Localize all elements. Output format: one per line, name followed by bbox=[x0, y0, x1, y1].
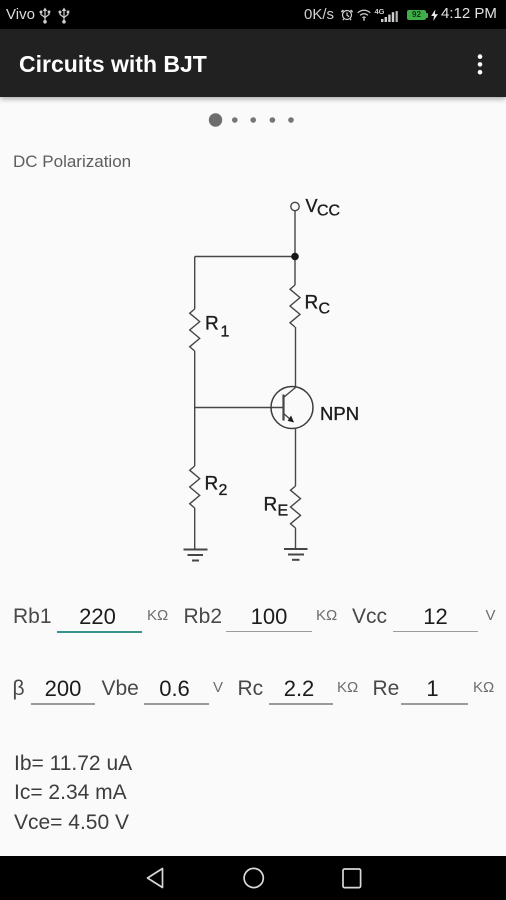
wire top horizontal bbox=[195, 256, 295, 258]
nav back button bbox=[144, 866, 166, 890]
transistor Q1 circle bbox=[271, 387, 313, 429]
status: 4G label bbox=[375, 7, 385, 16]
status: charging bolt bbox=[430, 9, 440, 22]
wire left rail middle bbox=[194, 351, 196, 466]
status: carrier text Vivo bbox=[6, 6, 35, 23]
field Rb1 bbox=[13, 605, 52, 629]
svg-text:2: 2 bbox=[219, 482, 228, 499]
status: network speed bbox=[304, 6, 334, 23]
dot 5 bbox=[288, 117, 294, 123]
junction node dot bbox=[291, 253, 299, 261]
status: battery with 92 bbox=[407, 10, 426, 20]
resistor R2 bbox=[190, 466, 200, 508]
transistor emitter diagonal bbox=[284, 414, 294, 423]
status: time bbox=[441, 5, 497, 22]
svg-text:V: V bbox=[306, 196, 318, 216]
section label bbox=[13, 152, 131, 172]
status: usb icon 1 bbox=[38, 7, 52, 24]
wire emitter down bbox=[295, 429, 297, 487]
transistor base bar bbox=[282, 395, 284, 421]
svg-text:R: R bbox=[264, 495, 278, 516]
ground right bbox=[284, 548, 308, 550]
active dot bbox=[209, 113, 222, 126]
transistor collector diagonal bbox=[284, 388, 296, 398]
dot 3 bbox=[250, 117, 256, 123]
ground left bbox=[184, 549, 208, 551]
wire left rail upper bbox=[194, 257, 196, 310]
Vcc terminal circle bbox=[291, 202, 299, 210]
wire base bbox=[195, 407, 284, 409]
app bar title bbox=[19, 51, 207, 78]
wire right rail upper bbox=[294, 257, 296, 286]
status bar bbox=[0, 0, 506, 29]
dot 4 bbox=[270, 117, 276, 123]
field Rc bbox=[238, 677, 264, 701]
svg-text:C: C bbox=[319, 301, 331, 318]
field beta bbox=[13, 677, 25, 701]
resistor RE bbox=[291, 486, 301, 528]
field Rb2 bbox=[184, 605, 223, 629]
app bar overflow menu bbox=[474, 52, 486, 76]
transistor emitter arrow bbox=[288, 416, 294, 423]
wire R2 to ground bbox=[194, 508, 196, 550]
app bar bbox=[0, 29, 506, 97]
svg-text:CC: CC bbox=[317, 203, 340, 220]
page indicator dots bbox=[200, 108, 310, 132]
dot 2 bbox=[232, 117, 238, 123]
status: signal bars bbox=[381, 11, 398, 22]
wire RC to transistor bbox=[295, 327, 297, 388]
svg-text:R: R bbox=[205, 474, 219, 495]
circuit schematic bbox=[0, 0, 506, 580]
results bbox=[14, 752, 132, 776]
svg-text:1: 1 bbox=[221, 324, 230, 341]
field Re bbox=[373, 677, 400, 701]
resistor RC bbox=[290, 285, 300, 327]
status: alarm clock icon bbox=[340, 8, 354, 22]
svg-text:R: R bbox=[305, 293, 319, 314]
resistor R1 bbox=[190, 309, 200, 351]
nav recents button bbox=[340, 866, 364, 890]
svg-text:R: R bbox=[205, 314, 219, 335]
wire RE to ground bbox=[295, 528, 297, 549]
wire Vcc to junction bbox=[294, 211, 296, 254]
status: usb icon 2 bbox=[57, 7, 71, 24]
field Vbe bbox=[102, 677, 139, 701]
svg-text:NPN: NPN bbox=[320, 403, 359, 424]
field Vcc bbox=[352, 605, 387, 629]
status: wifi icon bbox=[356, 9, 372, 21]
svg-text:E: E bbox=[278, 503, 289, 520]
nav bar bbox=[0, 856, 506, 900]
nav home button bbox=[242, 866, 266, 890]
